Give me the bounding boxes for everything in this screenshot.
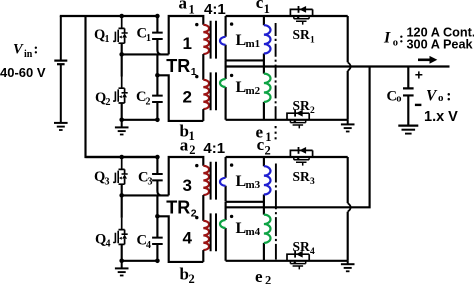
svg-text:TR: TR — [166, 197, 190, 217]
capacitor C4 — [152, 216, 163, 260]
svg-text:a: a — [179, 0, 188, 13]
svg-text:o: o — [393, 38, 398, 49]
wire: Vin+ top rail — [60, 15, 158, 17]
transistor Q2 — [113, 54, 128, 119]
svg-text:o: o — [396, 94, 401, 105]
svg-text:in: in — [24, 49, 33, 60]
wire: lower primary ground rail — [122, 260, 158, 262]
rectifier SR1 — [290, 6, 312, 25]
svg-text:a: a — [180, 136, 189, 155]
wire: lower center-tap rail up to output — [226, 67, 370, 208]
label C1 — [137, 26, 152, 44]
junction (Q1 drain on rail) — [119, 14, 124, 19]
svg-text:2: 2 — [265, 143, 271, 157]
wire: secondary winding 2 leg with coupling arc — [220, 60, 226, 119]
wire: output rail Vo+ — [226, 65, 450, 67]
svg-text:300 A Peak: 300 A Peak — [407, 38, 474, 52]
svg-text:2: 2 — [183, 88, 192, 107]
wire: secondary c2 line to SR3 — [226, 156, 348, 158]
svg-text:1: 1 — [146, 33, 151, 44]
svg-text:2: 2 — [106, 97, 111, 108]
rectifier SR4 — [287, 251, 309, 270]
junction (Q1 source / Q2 drain) — [119, 52, 124, 57]
junction (C2 top node) — [155, 73, 160, 78]
svg-text:+: + — [415, 67, 423, 83]
junction (Q3 source / Q4 drain) — [119, 193, 124, 198]
svg-text:TR: TR — [166, 56, 190, 76]
transformer core TR1a — [211, 21, 216, 59]
wire: left input bus down to lower cell — [86, 16, 158, 157]
wire: secondary1 bottom link — [226, 59, 264, 61]
label Q1 — [94, 27, 110, 45]
svg-text:SR: SR — [293, 27, 311, 42]
label Lm2 — [236, 79, 261, 97]
label a1 — [179, 0, 195, 17]
wire: winding2 bottom lead — [202, 109, 204, 121]
polarity dot secondary 2 — [230, 74, 233, 77]
svg-text:1: 1 — [189, 129, 195, 143]
rectifier SR2 — [287, 110, 309, 129]
wire: secondary c1 line to SR1 — [226, 15, 348, 17]
label Q2 — [95, 90, 111, 108]
wire: SR return with hopover of output rail — [347, 16, 349, 120]
secondary winding 3 with coupling arc — [220, 157, 226, 201]
svg-text:3: 3 — [148, 177, 153, 188]
wire: SR3/SR4 return with hopover of lower tap rail — [347, 157, 349, 261]
wire: secondary3 bottom link — [226, 201, 264, 203]
label C4 — [137, 232, 152, 250]
svg-text:V: V — [426, 87, 438, 104]
phase boundary dash-dot line (cell 1) — [275, 23, 277, 120]
junction (Q2 source at ground rail) — [119, 118, 124, 123]
ground (half-bridge 1) — [115, 120, 129, 135]
label Io: 120 A Cont. 300 A Peak — [383, 26, 474, 52]
junction (C2 bottom at ground rail) — [155, 118, 160, 123]
label e1 — [256, 122, 272, 144]
svg-text:2: 2 — [265, 273, 271, 284]
svg-text:4: 4 — [183, 229, 193, 248]
svg-text:3: 3 — [183, 176, 192, 195]
svg-text:2: 2 — [310, 106, 315, 116]
wire hop over lower tap rail — [348, 203, 351, 212]
transformer TR1 winding 1 (primary) — [203, 25, 209, 54]
svg-text::: : — [34, 42, 39, 58]
label SR1 — [293, 27, 316, 45]
svg-text:m3: m3 — [246, 179, 261, 191]
rectifier SR3 — [290, 147, 312, 166]
wire: node a2 horizontal — [122, 194, 169, 196]
svg-text:SR: SR — [293, 239, 311, 254]
polarity dot winding 2 — [195, 75, 198, 78]
label Lm1 — [236, 32, 261, 50]
label a2 — [180, 136, 196, 158]
svg-text:c: c — [257, 135, 265, 154]
label C2 — [136, 89, 151, 108]
svg-text:1.x V: 1.x V — [424, 109, 458, 125]
polarity dot winding 4 — [195, 216, 198, 219]
capacitor Co — [403, 67, 414, 126]
magnetizing inductor Lm2 — [264, 67, 271, 120]
wire hop over output rail — [348, 62, 351, 71]
magnetizing inductor Lm4 — [264, 207, 271, 260]
svg-text:4: 4 — [310, 247, 315, 257]
ground (SR1/SR2 return) — [341, 120, 355, 132]
wire: primary ground rail — [122, 119, 158, 121]
capacitor C1 — [152, 16, 163, 54]
junction (C4 bottom at ground rail) — [155, 259, 160, 264]
label Q3 — [94, 169, 110, 187]
phase boundary dash-dot line (cell 2) — [275, 164, 277, 260]
ground (output) — [398, 126, 418, 134]
svg-text:e: e — [255, 267, 263, 284]
svg-text:o: o — [438, 92, 444, 104]
svg-text:4: 4 — [146, 240, 151, 251]
svg-text:4:1: 4:1 — [203, 140, 225, 157]
wire: node a1 riser to winding 1 — [169, 16, 204, 54]
magnetizing inductor Lm3 — [264, 157, 271, 207]
junction (C4 top node) — [155, 214, 160, 219]
svg-text:m4: m4 — [246, 226, 261, 238]
wire: series link winding3-winding4 — [202, 195, 204, 221]
wire: node a1 horizontal (Q1/Q2 midpoint) — [122, 53, 169, 55]
label SR3 — [293, 169, 316, 187]
transformer core TR1b — [211, 72, 216, 110]
label b1 — [180, 122, 195, 144]
junction (Q4 source at ground rail) — [119, 259, 124, 264]
magnetizing inductor Lm1 — [264, 16, 271, 67]
junction (C3 top on rail) — [155, 155, 160, 160]
transformer TR2 winding 3 (primary) — [203, 166, 209, 195]
svg-text:1: 1 — [105, 34, 110, 45]
svg-text::: : — [446, 87, 451, 104]
svg-text:1: 1 — [310, 35, 315, 45]
svg-text:2: 2 — [189, 143, 195, 157]
label SR2 — [293, 98, 316, 116]
label Lm4 — [236, 220, 261, 238]
wire: node a2 riser to winding 3 — [169, 157, 204, 195]
capacitor C2 — [152, 75, 163, 120]
svg-text:SR: SR — [293, 98, 311, 113]
label Q4 — [95, 231, 111, 249]
svg-text:1: 1 — [265, 130, 271, 144]
label c2 — [257, 135, 271, 157]
output current arrow — [418, 56, 437, 64]
ground (half-bridge 2) — [115, 261, 129, 276]
polarity dot secondary 1 — [230, 22, 233, 25]
junction (Q3 drain on rail) — [119, 155, 124, 160]
wire: node b1 route (to winding 2 bottom) — [157, 75, 203, 121]
label b2 — [180, 265, 195, 284]
wire: node b2 route (to winding 4 bottom) — [157, 216, 203, 262]
svg-text:SR: SR — [293, 169, 311, 184]
polarity dot winding 3 — [195, 164, 198, 167]
label Lm3 — [236, 173, 261, 191]
label TR1 — [166, 56, 197, 78]
svg-text::: : — [399, 31, 404, 47]
svg-text:3: 3 — [105, 176, 110, 187]
transistor Q3 — [113, 157, 128, 195]
svg-text:I: I — [383, 30, 391, 47]
svg-text:40-60 V: 40-60 V — [0, 65, 46, 80]
label SR4 — [293, 239, 316, 257]
transformer core TR2a — [211, 162, 216, 200]
svg-text:1: 1 — [183, 34, 192, 53]
ground (input source) — [54, 123, 68, 130]
label Vo: 1.x V — [424, 87, 458, 125]
wire: secondary winding 4 leg with coupling arc — [220, 202, 226, 261]
wire: C-leg drop to C2 — [156, 54, 158, 75]
junction (C1 top on rail) — [155, 14, 160, 19]
label TR2 — [166, 197, 197, 219]
polarity dot secondary 4 — [230, 215, 233, 218]
capacitor C3 — [152, 157, 163, 195]
svg-text:2: 2 — [189, 272, 195, 284]
wire: winding4 bottom lead — [202, 250, 204, 262]
svg-text:3: 3 — [310, 177, 315, 187]
transformer TR1 winding 2 (primary) — [203, 80, 209, 109]
polarity dot winding 1 — [195, 23, 198, 26]
label C3 — [138, 169, 153, 187]
label Co — [387, 88, 402, 104]
svg-text:2: 2 — [146, 97, 151, 108]
secondary winding 1 with coupling arc — [220, 16, 226, 60]
wire: C-leg drop to C4 — [156, 195, 158, 216]
svg-text:1: 1 — [264, 2, 270, 16]
polarity dot secondary 3 — [230, 163, 233, 166]
svg-text:4: 4 — [106, 239, 111, 250]
transformer core TR2b — [211, 213, 216, 251]
transformer TR2 winding 4 (primary) — [203, 221, 209, 250]
svg-text:m1: m1 — [246, 38, 261, 50]
label Vin: 40-60 V — [0, 42, 46, 80]
svg-text:m2: m2 — [246, 85, 261, 97]
svg-text:c: c — [256, 0, 264, 12]
svg-text:1: 1 — [189, 3, 195, 17]
transistor Q1 — [113, 16, 128, 54]
svg-text:4:1: 4:1 — [204, 1, 226, 18]
label minus — [415, 104, 422, 106]
svg-text:V: V — [13, 42, 24, 58]
label e2 — [255, 267, 271, 284]
ground (SR3/SR4 return) — [341, 261, 355, 272]
wire: e2 line to SR4 — [226, 260, 348, 262]
wire: series link winding1-winding2 — [202, 54, 204, 80]
label c1 — [256, 0, 270, 16]
transistor Q4 — [113, 195, 128, 260]
voltage source Vin battery — [54, 16, 67, 123]
wire: e1 line to SR2 — [226, 119, 348, 121]
wire: lower Vin rail — [86, 156, 158, 158]
